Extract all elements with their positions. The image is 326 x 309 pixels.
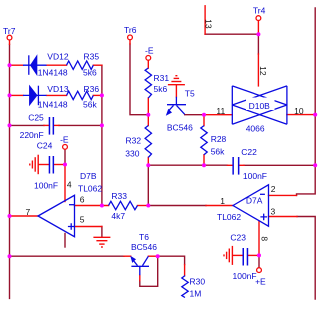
svg-text:R33: R33 xyxy=(111,191,127,201)
svg-text:5k6: 5k6 xyxy=(154,84,168,94)
svg-text:R28: R28 xyxy=(211,134,227,144)
svg-text:BC546: BC546 xyxy=(131,242,157,252)
svg-text:100nF: 100nF xyxy=(233,271,257,281)
svg-text:R36: R36 xyxy=(84,84,100,94)
svg-text:5k6: 5k6 xyxy=(83,68,97,78)
svg-text:D10B: D10B xyxy=(249,101,271,111)
svg-text:Tr6: Tr6 xyxy=(124,25,137,35)
svg-text:C22: C22 xyxy=(241,147,257,157)
svg-text:C24: C24 xyxy=(37,141,53,151)
svg-text:2: 2 xyxy=(271,184,276,194)
svg-text:6: 6 xyxy=(80,195,85,205)
svg-text:12: 12 xyxy=(258,66,268,76)
svg-text:R31: R31 xyxy=(154,73,170,83)
svg-text:R30: R30 xyxy=(190,276,206,286)
svg-text:1N4148: 1N4148 xyxy=(38,100,68,110)
svg-text:Tr4: Tr4 xyxy=(253,5,266,15)
svg-text:VD13: VD13 xyxy=(47,84,69,94)
svg-text:220nF: 220nF xyxy=(20,130,44,140)
svg-text:TL062: TL062 xyxy=(78,184,102,194)
svg-text:+E: +E xyxy=(255,276,266,286)
svg-text:3: 3 xyxy=(271,206,276,216)
svg-text:VD12: VD12 xyxy=(47,51,69,61)
svg-text:5: 5 xyxy=(80,214,85,224)
svg-text:-E: -E xyxy=(145,45,154,55)
svg-text:C23: C23 xyxy=(230,232,246,242)
svg-text:100nF: 100nF xyxy=(243,171,267,181)
svg-text:1N4148: 1N4148 xyxy=(38,68,68,78)
svg-text:Tr7: Tr7 xyxy=(3,26,16,36)
svg-text:56k: 56k xyxy=(211,147,225,157)
svg-text:7: 7 xyxy=(26,207,31,217)
svg-text:R32: R32 xyxy=(126,135,142,145)
svg-text:-E: -E xyxy=(60,134,69,144)
svg-text:1: 1 xyxy=(220,196,225,206)
svg-text:T6: T6 xyxy=(139,232,149,242)
svg-text:56k: 56k xyxy=(83,100,97,110)
svg-text:4066: 4066 xyxy=(246,123,265,133)
svg-text:BC546: BC546 xyxy=(167,122,193,132)
svg-text:4k7: 4k7 xyxy=(111,211,125,221)
svg-text:100nF: 100nF xyxy=(34,181,58,191)
svg-text:4: 4 xyxy=(67,180,72,190)
svg-text:TL062: TL062 xyxy=(217,212,241,222)
svg-text:T5: T5 xyxy=(185,89,195,99)
svg-text:D7A: D7A xyxy=(246,196,263,206)
svg-text:1M: 1M xyxy=(190,288,202,298)
svg-text:11: 11 xyxy=(216,106,225,116)
svg-text:13: 13 xyxy=(203,19,213,29)
svg-text:10: 10 xyxy=(294,106,304,116)
svg-text:330: 330 xyxy=(125,148,139,158)
svg-text:8: 8 xyxy=(259,236,269,241)
svg-text:D7B: D7B xyxy=(80,171,97,181)
svg-text:R35: R35 xyxy=(84,52,100,62)
svg-text:C25: C25 xyxy=(28,112,44,122)
